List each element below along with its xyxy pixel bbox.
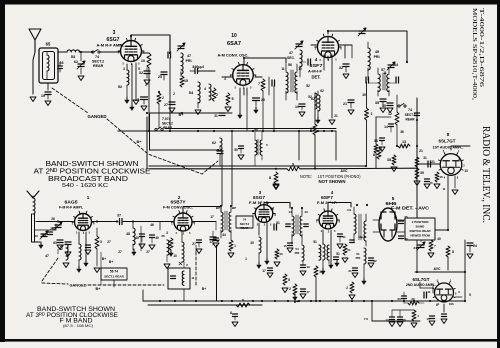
svg-text:15: 15: [426, 317, 430, 321]
svg-text:7.5: 7.5: [364, 317, 369, 321]
svg-text:11: 11: [442, 187, 446, 191]
svg-text:17: 17: [209, 240, 213, 244]
svg-text:62: 62: [212, 141, 216, 145]
svg-text:48: 48: [126, 232, 130, 236]
svg-text:NOTE:: NOTE:: [300, 174, 312, 179]
svg-text:11: 11: [383, 71, 387, 75]
svg-text:40: 40: [155, 236, 159, 240]
svg-text:8: 8: [269, 176, 271, 180]
svg-text:52: 52: [59, 247, 63, 251]
svg-text:24: 24: [473, 244, 477, 248]
svg-text:NOT SHOWN: NOT SHOWN: [319, 179, 346, 184]
svg-text:55: 55: [254, 128, 258, 132]
svg-text:13: 13: [464, 169, 468, 173]
svg-text:BAND: BAND: [416, 225, 425, 229]
svg-text:9: 9: [242, 299, 244, 303]
svg-text:AVC: AVC: [434, 267, 441, 271]
svg-text:44: 44: [222, 233, 226, 237]
svg-text:10: 10: [141, 59, 145, 63]
svg-text:10: 10: [279, 252, 283, 256]
svg-text:RADIO & TELEV., INC.: RADIO & TELEV., INC.: [480, 126, 491, 223]
svg-text:8: 8: [230, 311, 232, 315]
svg-text:1: 1: [319, 270, 321, 274]
svg-text:SWITCH REAR: SWITCH REAR: [409, 229, 431, 233]
svg-text:28: 28: [402, 318, 406, 322]
svg-text:2: 2: [145, 83, 147, 87]
svg-text:PRI.: PRI.: [186, 59, 193, 63]
svg-text:61: 61: [53, 241, 57, 245]
svg-text:52: 52: [118, 85, 122, 89]
svg-text:16: 16: [450, 302, 454, 306]
svg-text:25: 25: [404, 215, 408, 219]
svg-text:BROADCAST BAND: BROADCAST BAND: [48, 174, 128, 183]
svg-text:31: 31: [214, 114, 218, 118]
svg-text:51: 51: [347, 248, 351, 252]
svg-text:2: 2: [162, 96, 164, 100]
svg-text:47: 47: [289, 51, 293, 55]
svg-text:38: 38: [387, 158, 391, 162]
svg-text:35: 35: [382, 104, 386, 108]
svg-text:1: 1: [245, 257, 247, 261]
svg-text:43: 43: [34, 234, 38, 238]
svg-text:5: 5: [138, 67, 140, 71]
svg-text:2ND AUDIO AMPL.: 2ND AUDIO AMPL.: [406, 283, 436, 287]
svg-text:8: 8: [452, 250, 454, 254]
svg-text:17: 17: [306, 290, 310, 294]
svg-text:25: 25: [158, 75, 162, 79]
svg-text:56 74: 56 74: [110, 270, 118, 274]
svg-text:REAR: REAR: [241, 226, 249, 230]
svg-text:9: 9: [292, 163, 294, 167]
svg-text:45: 45: [135, 236, 139, 240]
svg-text:PRI: PRI: [295, 251, 300, 255]
svg-text:SEC.: SEC.: [287, 56, 295, 60]
svg-text:REAR: REAR: [93, 64, 104, 68]
svg-text:41: 41: [342, 235, 346, 239]
svg-text:32: 32: [339, 66, 343, 70]
svg-text:19: 19: [306, 265, 310, 269]
svg-text:6SA7: 6SA7: [227, 41, 241, 47]
svg-text:52: 52: [308, 95, 312, 99]
svg-text:7,074: 7,074: [162, 117, 171, 121]
svg-text:BP: BP: [232, 206, 236, 210]
svg-text:26: 26: [51, 217, 55, 221]
svg-text:65: 65: [46, 42, 51, 47]
svg-text:3: 3: [113, 30, 116, 36]
svg-text:2: 2: [216, 93, 218, 97]
svg-text:11: 11: [191, 276, 195, 280]
svg-text:30: 30: [250, 241, 254, 245]
svg-text:A-M CONV. OSC.: A-M CONV. OSC.: [218, 53, 249, 58]
svg-text:10: 10: [173, 254, 177, 258]
svg-text:6SF7: 6SF7: [310, 63, 324, 68]
svg-text:1: 1: [87, 195, 90, 200]
svg-text:17: 17: [262, 269, 266, 273]
svg-text:32: 32: [139, 71, 143, 75]
svg-text:B+: B+: [102, 257, 106, 261]
svg-text:REAR: REAR: [405, 118, 415, 122]
svg-text:F-M DET. - AVC: F-M DET. - AVC: [391, 206, 429, 211]
svg-text:62: 62: [74, 60, 78, 64]
svg-text:20: 20: [404, 237, 408, 241]
svg-text:21: 21: [419, 149, 423, 153]
svg-text:6AG5: 6AG5: [65, 200, 78, 205]
svg-text:19: 19: [41, 94, 45, 98]
svg-text:A-M-I-F: A-M-I-F: [308, 69, 323, 74]
svg-text:37: 37: [117, 214, 121, 218]
svg-text:13: 13: [402, 140, 406, 144]
svg-text:6SG7: 6SG7: [107, 37, 120, 43]
svg-text:F-M R-F AMPL: F-M R-F AMPL: [59, 206, 84, 210]
svg-text:1: 1: [234, 244, 236, 248]
svg-text:3: 3: [166, 231, 168, 235]
svg-text:3: 3: [123, 67, 125, 71]
svg-text:6SL7GT: 6SL7GT: [439, 139, 456, 144]
svg-text:16: 16: [439, 175, 443, 179]
svg-text:2: 2: [289, 287, 291, 291]
svg-text:35: 35: [362, 93, 366, 97]
svg-text:36: 36: [400, 130, 404, 134]
svg-text:340μμf: 340μμf: [192, 65, 204, 69]
svg-text:6SB7Y: 6SB7Y: [171, 200, 186, 205]
svg-text:DET.: DET.: [312, 75, 321, 80]
svg-text:51: 51: [336, 252, 340, 256]
svg-text:11: 11: [427, 290, 431, 294]
svg-text:SECT.2: SECT.2: [92, 60, 104, 64]
svg-text:32: 32: [373, 259, 377, 263]
svg-text:34: 34: [413, 246, 417, 250]
svg-text:19: 19: [295, 105, 299, 109]
svg-text:4 POSITION: 4 POSITION: [412, 220, 429, 224]
svg-text:52: 52: [306, 84, 310, 88]
svg-text:15: 15: [283, 244, 287, 248]
svg-text:6SG7: 6SG7: [253, 195, 266, 200]
svg-text:SECT.1 REAR: SECT.1 REAR: [104, 275, 124, 279]
svg-text:51: 51: [276, 221, 280, 225]
svg-text:6SF7: 6SF7: [321, 195, 334, 200]
svg-text:8: 8: [447, 132, 450, 137]
svg-text:B+: B+: [202, 287, 206, 291]
svg-text:27: 27: [107, 240, 111, 244]
svg-text:5: 5: [469, 293, 471, 297]
svg-text:MODELS SP-6810,T-4000,: MODELS SP-6810,T-4000,: [471, 8, 477, 101]
svg-text:6SL7GT: 6SL7GT: [413, 277, 430, 282]
svg-text:13: 13: [385, 318, 389, 322]
svg-text:T-4000-1/2,D-6876: T-4000-1/2,D-6876: [478, 8, 484, 87]
svg-text:26: 26: [50, 227, 54, 231]
svg-text:46: 46: [150, 223, 154, 227]
svg-text:B+: B+: [109, 260, 113, 264]
svg-text:47: 47: [187, 54, 191, 58]
svg-text:10: 10: [231, 33, 237, 39]
svg-text:26: 26: [161, 234, 165, 238]
svg-text:40: 40: [437, 237, 441, 241]
svg-text:23: 23: [397, 297, 401, 301]
svg-text:53: 53: [71, 54, 76, 59]
svg-text:35: 35: [375, 101, 379, 105]
svg-text:3: 3: [100, 240, 102, 244]
svg-text:8: 8: [373, 153, 375, 157]
svg-text:4: 4: [315, 57, 318, 62]
svg-text:27: 27: [146, 250, 150, 254]
svg-text:7: 7: [258, 82, 260, 86]
svg-text:PRI: PRI: [356, 256, 361, 260]
svg-text:11: 11: [281, 67, 285, 71]
svg-text:2: 2: [371, 112, 373, 116]
svg-text:2: 2: [346, 286, 348, 290]
svg-text:17: 17: [210, 215, 214, 219]
svg-text:(87.5 - 108 MC): (87.5 - 108 MC): [63, 323, 94, 328]
svg-text:27: 27: [164, 103, 168, 107]
svg-text:21: 21: [334, 114, 338, 118]
svg-text:21: 21: [348, 269, 352, 273]
svg-text:4: 4: [224, 77, 226, 81]
svg-text:8: 8: [380, 147, 382, 151]
svg-text:4: 4: [204, 87, 206, 91]
svg-text:B+: B+: [96, 287, 102, 291]
svg-text:4.9: 4.9: [347, 208, 352, 212]
svg-text:PRI.: PRI.: [374, 55, 381, 59]
svg-text:27: 27: [118, 250, 122, 254]
svg-text:31: 31: [423, 156, 427, 160]
svg-text:GANGED: GANGED: [70, 283, 87, 288]
svg-text:SECT.2: SECT.2: [162, 122, 173, 126]
svg-text:50: 50: [234, 148, 238, 152]
svg-text:14: 14: [384, 125, 388, 129]
svg-text:14: 14: [288, 210, 292, 214]
svg-text:49: 49: [375, 50, 379, 54]
svg-text:2: 2: [173, 92, 175, 96]
svg-text:47: 47: [45, 254, 49, 258]
svg-text:43: 43: [304, 210, 308, 214]
svg-text:B+: B+: [137, 140, 143, 144]
svg-text:21: 21: [343, 102, 347, 106]
svg-text:15: 15: [184, 79, 188, 83]
svg-text:51: 51: [270, 207, 274, 211]
svg-text:60μμf: 60μμf: [358, 235, 366, 239]
svg-text:SECT.3: SECT.3: [405, 113, 416, 117]
svg-text:62: 62: [320, 89, 324, 93]
svg-text:74: 74: [95, 55, 99, 59]
svg-text:VIEWED FROM: VIEWED FROM: [410, 234, 431, 238]
svg-text:56: 56: [288, 63, 292, 67]
svg-text:8: 8: [288, 278, 290, 282]
svg-text:74: 74: [243, 218, 247, 222]
svg-text:5: 5: [231, 97, 233, 101]
svg-text:39: 39: [420, 171, 424, 175]
svg-text:A-M R-F AMPL.: A-M R-F AMPL.: [97, 44, 126, 48]
svg-text:27: 27: [192, 242, 196, 246]
svg-text:1: 1: [458, 157, 460, 161]
svg-text:GANGED: GANGED: [88, 114, 107, 119]
svg-text:AVC: AVC: [341, 169, 348, 173]
svg-text:540 - 1620 KC: 540 - 1620 KC: [62, 183, 108, 189]
svg-text:54: 54: [189, 90, 194, 95]
svg-text:74: 74: [408, 108, 412, 112]
svg-text:21: 21: [431, 160, 435, 164]
svg-text:51: 51: [313, 240, 317, 244]
svg-text:6.2: 6.2: [42, 233, 47, 237]
